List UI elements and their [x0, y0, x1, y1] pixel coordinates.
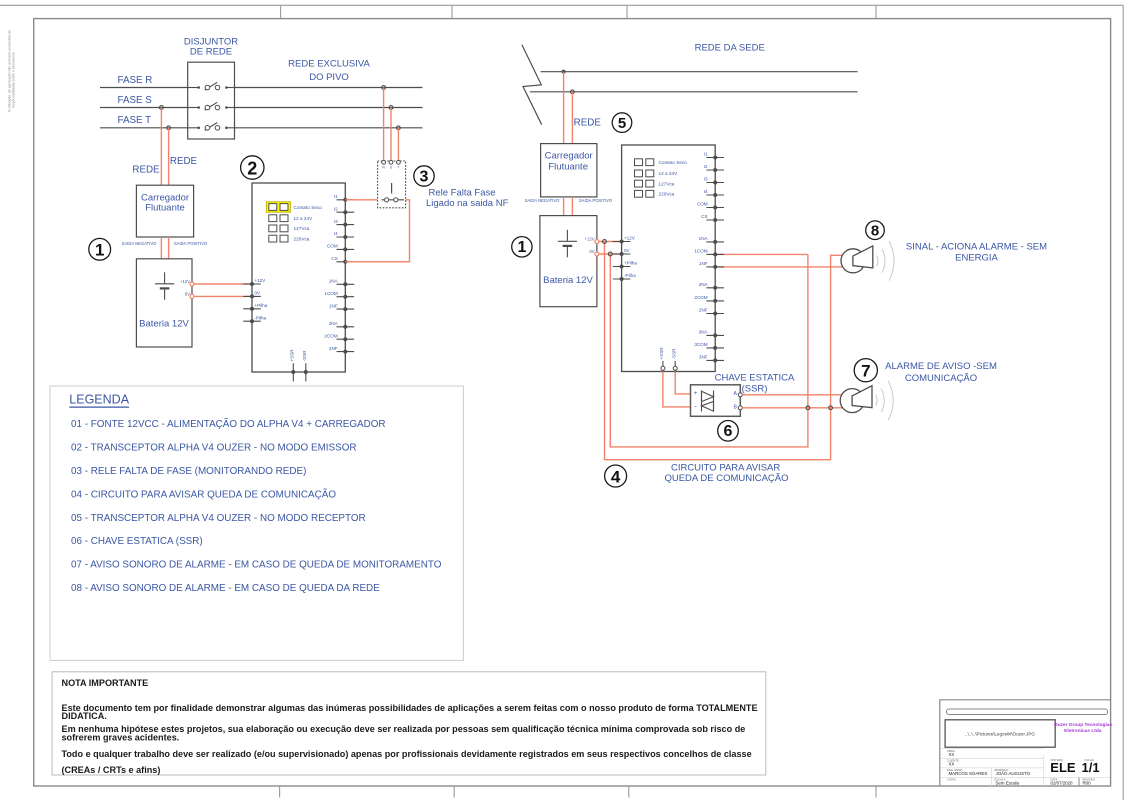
callout circle 8 — [866, 221, 885, 240]
top fold tick 1 — [280, 5, 282, 18]
svg-text:1/1: 1/1 — [1082, 760, 1100, 775]
top fold tick 4 — [875, 5, 877, 18]
svg-text:I1: I1 — [334, 194, 338, 199]
pin 2NA — [699, 282, 724, 290]
junction node 0V rail — [608, 252, 612, 256]
svg-text:6: 6 — [724, 423, 733, 440]
svg-text:07 - AVISO SONORO DE ALARME -: 07 - AVISO SONORO DE ALARME - EM CASO DE… — [71, 560, 442, 571]
svg-text:I2: I2 — [704, 164, 708, 169]
label CHAVE ESTATICA (SSR) — [715, 373, 795, 395]
title block slot bar — [947, 709, 1108, 715]
junction node rail 1 tap — [562, 70, 566, 74]
svg-text:SAIDA POSITIVO: SAIDA POSITIVO — [579, 198, 613, 203]
svg-text:SAIDA POSITIVO: SAIDA POSITIVO — [174, 241, 208, 246]
svg-text:5: 5 — [618, 115, 626, 132]
svg-text:A: A — [734, 391, 738, 397]
svg-text:I3: I3 — [334, 219, 338, 224]
wire rail2 drop to carregador (receiver) — [571, 92, 573, 144]
battery pin terminal 0V (emitter) — [190, 294, 194, 298]
pin I4 — [334, 231, 354, 239]
company name Ouzer Group — [1054, 722, 1113, 734]
svg-text:FASE T: FASE T — [118, 115, 152, 126]
pin 2COM — [324, 333, 354, 341]
svg-text:FASE S: FASE S — [118, 95, 153, 106]
wire FASE T — [100, 127, 423, 129]
svg-text:Bateria 12V: Bateria 12V — [543, 275, 593, 286]
svg-text:1NF: 1NF — [329, 303, 338, 308]
svg-text:3: 3 — [420, 168, 429, 185]
svg-text:XX: XX — [949, 762, 955, 767]
title block grid lines — [940, 749, 1110, 786]
svg-text:Flutuante: Flutuante — [548, 161, 588, 172]
svg-text:FASE R: FASE R — [118, 75, 153, 86]
pin +Pilha — [243, 303, 268, 311]
svg-text:+12V: +12V — [624, 236, 636, 241]
svg-text:CIRCUITO PARA AVISAR: CIRCUITO PARA AVISAR — [671, 463, 780, 474]
wire fase S drop to relay — [390, 108, 392, 162]
wire battery 0V to receiver box — [597, 253, 622, 255]
wire 1COM to vertical riser — [715, 253, 808, 255]
svg-text:02 - TRANSCEPTOR ALPHA V4 OUZE: 02 - TRANSCEPTOR ALPHA V4 OUZER - NO MOD… — [71, 443, 357, 454]
svg-text:+Pilha: +Pilha — [624, 261, 637, 266]
svg-text:Contato Seco: Contato Seco — [294, 205, 323, 210]
wire battery 0V to transceiver — [192, 295, 252, 297]
pin -Pilha — [243, 315, 266, 323]
svg-text:-Pilha: -Pilha — [254, 315, 266, 320]
svg-text:02/07/2020: 02/07/2020 — [1051, 781, 1074, 786]
svg-text:03 - RELE FALTA DE FASE (MONIT: 03 - RELE FALTA DE FASE (MONITORANDO RED… — [71, 466, 306, 477]
transceiver box U5 alpha V4 receiver — [622, 145, 716, 372]
transceiver box U2 alpha V4 emitter — [252, 183, 345, 372]
pin CS — [331, 256, 354, 264]
svg-text:responsabilidade sobre o docum: responsabilidade sobre o documento — [12, 52, 16, 108]
callout circle 4 — [605, 465, 627, 487]
wire rede da sede rail 2 — [530, 91, 858, 93]
svg-text:127Vca: 127Vca — [294, 226, 310, 231]
svg-text:QUEDA DE COMUNICAÇÃO: QUEDA DE COMUNICAÇÃO — [664, 473, 788, 484]
svg-text:SAIDA NEGATIVO: SAIDA NEGATIVO — [525, 198, 561, 203]
callout circle 2 — [241, 156, 264, 179]
svg-text:8: 8 — [871, 223, 879, 240]
pin +Pilha — [613, 261, 638, 269]
bottom fold tick 4 — [875, 786, 877, 798]
label ALARME DE AVISO -SEM COMUNICACAO — [885, 361, 997, 384]
page right edge line — [1122, 5, 1124, 800]
breaker switch pole 2 — [188, 102, 235, 110]
contact option 12 a 24V — [635, 170, 679, 177]
speaker sound arcs 8 - queda da rede — [877, 241, 895, 281]
label Rele Falta Fase Ligado na saida NF — [426, 188, 509, 210]
chave estatica SSR box U6 — [691, 385, 741, 417]
carregador flutuante box (receiver) — [541, 144, 597, 197]
svg-text:MARCOS SOARES: MARCOS SOARES — [949, 771, 988, 776]
svg-text:B: B — [734, 405, 738, 411]
wire +12V rail down to circuit 4 — [605, 242, 843, 460]
relay NF contact terminal left — [385, 198, 389, 202]
svg-text:Ouzer Group Tecnologias: Ouzer Group Tecnologias — [1054, 722, 1113, 728]
svg-text:2COM: 2COM — [324, 333, 337, 338]
wire 0V rail down to circuit 4 — [610, 254, 808, 447]
svg-text:NOTA IMPORTANTE: NOTA IMPORTANTE — [62, 678, 149, 688]
pin 1COM — [324, 291, 354, 299]
svg-text:(CREAs / CRTs e afins): (CREAs / CRTs e afins) — [62, 765, 161, 775]
svg-text:sofrerem graves acidentes.: sofrerem graves acidentes. — [62, 733, 180, 743]
pin I1 — [704, 152, 724, 160]
svg-text:2NF: 2NF — [329, 346, 338, 351]
pin 2COM — [694, 295, 724, 303]
svg-text:CS: CS — [701, 214, 707, 219]
svg-text:CHAVE ESTATICA: CHAVE ESTATICA — [715, 373, 795, 384]
battery pin terminal +12V (emitter) — [190, 282, 194, 286]
SSR triac symbol — [702, 391, 714, 412]
wire -SSR pin to chave estatica plus — [675, 372, 690, 394]
left margin disclaimer vertical text — [8, 30, 16, 112]
title block border — [940, 700, 1111, 786]
svg-text:220Vca: 220Vca — [659, 192, 675, 197]
svg-text:+Pilha: +Pilha — [254, 303, 267, 308]
pin 1NA — [329, 279, 354, 287]
svg-text:Todo e qualquer trabalho deve: Todo e qualquer trabalho deve ser realiz… — [62, 749, 752, 759]
pin 2NF — [699, 308, 724, 316]
svg-text:0V: 0V — [254, 291, 261, 296]
label SINAL - ACIONA ALARME - SEM ENERGIA — [906, 242, 1047, 264]
svg-text:ENERGIA: ENERGIA — [955, 253, 998, 264]
svg-text:1NF: 1NF — [699, 261, 708, 266]
pin I4 — [704, 189, 724, 197]
utility break symbol — [522, 45, 542, 125]
wire FASE S — [100, 107, 423, 109]
wire carregador to bateria positive — [168, 237, 170, 259]
svg-text:I2: I2 — [334, 206, 338, 211]
svg-text:XX: XX — [949, 752, 955, 757]
svg-text:+SSR: +SSR — [659, 347, 664, 360]
speaker sound arcs 7 - queda de monitoramento — [876, 381, 894, 421]
top fold tick 2 — [451, 5, 453, 18]
svg-text:I3: I3 — [704, 177, 708, 182]
label CIRCUITO PARA AVISAR QUEDA DE COMUNICACAO — [664, 463, 788, 485]
svg-text:CS: CS — [331, 256, 337, 261]
svg-text:I4: I4 — [334, 231, 338, 236]
pin 1COM — [694, 249, 724, 257]
wire carregador to bateria positive (receiver) — [571, 197, 573, 216]
label DISJUNTOR DE REDE — [184, 36, 238, 57]
svg-text:4: 4 — [611, 467, 621, 486]
wire carregador to bateria negative (receiver) — [563, 197, 565, 216]
battery symbol bateria right — [558, 230, 577, 257]
svg-text:REDE: REDE — [574, 117, 602, 128]
pin 1NF — [329, 303, 354, 311]
svg-text:COMUNICAÇÃO: COMUNICAÇÃO — [905, 373, 977, 384]
relay phase letters R S T — [382, 165, 399, 169]
svg-text:2NF: 2NF — [699, 308, 708, 313]
svg-text:SINAL - ACIONA ALARME - SEM: SINAL - ACIONA ALARME - SEM — [906, 242, 1047, 253]
contact option 127Vca — [269, 225, 310, 232]
rele falta fase box (dashed) — [378, 161, 406, 208]
callout circle 1 (right) — [512, 237, 532, 257]
svg-text:-Pilha: -Pilha — [624, 273, 636, 278]
contact option 12 a 24V — [269, 215, 313, 222]
svg-text:Eletronicas Ltda: Eletronicas Ltda — [1064, 728, 1102, 734]
svg-text:DO PIVO: DO PIVO — [309, 72, 349, 83]
svg-text:08 - AVISO SONORO DE ALARME -: 08 - AVISO SONORO DE ALARME - EM CASO DE… — [71, 583, 380, 594]
svg-text:0V: 0V — [589, 249, 594, 254]
legend box — [50, 386, 463, 660]
svg-text:LEGENDA: LEGENDA — [69, 393, 129, 407]
svg-text:Bateria 12V: Bateria 12V — [139, 318, 189, 329]
contact option 220Vca — [635, 190, 675, 197]
page top edge line — [0, 4, 1123, 6]
pin 3NA — [699, 330, 724, 338]
relay input terminal R — [382, 160, 386, 164]
title block field values — [949, 752, 1092, 786]
wire SSR A to speaker 7 — [742, 394, 842, 396]
svg-text:2: 2 — [247, 158, 257, 178]
relay input terminal T — [397, 160, 401, 164]
svg-text:-SSR: -SSR — [671, 348, 676, 360]
contact option Contato Seco — [269, 204, 322, 211]
svg-text:04 - CIRCUITO PARA AVISAR QUED: 04 - CIRCUITO PARA AVISAR QUEDA DE COMUN… — [71, 489, 336, 500]
svg-text:12 a 24V: 12 a 24V — [659, 171, 679, 176]
svg-text:1NA: 1NA — [329, 279, 339, 284]
svg-text:1NA: 1NA — [699, 236, 709, 241]
pin CS — [701, 214, 724, 222]
svg-text:Rele Falta Fase: Rele Falta Fase — [429, 188, 496, 199]
breaker switch pole 3 — [188, 123, 235, 131]
carregador flutuante box (emitter) — [136, 185, 193, 237]
pin I2 — [704, 164, 724, 172]
relay input terminal S — [389, 160, 393, 164]
callout circle 1 (left) — [89, 238, 111, 260]
junction node rail 2 tap — [571, 90, 575, 94]
pin +SSR bottom (emitter) — [290, 349, 296, 382]
junction node FASE S to relay — [389, 106, 393, 110]
svg-text:REDE DA SEDE: REDE DA SEDE — [695, 43, 765, 54]
label Carregador Flutuante (receiver) — [545, 151, 593, 173]
svg-text:01 - FONTE 12VCC - ALIMENTAÇÃO: 01 - FONTE 12VCC - ALIMENTAÇÃO DO ALPHA … — [71, 419, 386, 430]
pin I2 — [334, 206, 354, 214]
svg-text:ELE: ELE — [1050, 760, 1076, 775]
pin 1NA — [699, 236, 724, 244]
svg-text:REDE: REDE — [170, 156, 198, 167]
pin +12V — [613, 236, 636, 244]
svg-text:-SSR: -SSR — [302, 350, 307, 362]
wire 1NF to speaker 8 — [715, 266, 842, 268]
wire +SSR pin to chave estatica minus — [663, 372, 691, 407]
wire battery +12V to receiver box — [597, 241, 622, 243]
speaker 8 - queda da rede — [841, 246, 873, 273]
battery pin terminal +12V (receiver) — [595, 240, 599, 244]
junction node FASE T tap — [167, 126, 171, 130]
pin -SSR bottom (emitter) — [302, 350, 308, 382]
svg-text:1: 1 — [95, 241, 104, 260]
pin 0V — [613, 248, 631, 256]
svg-text:2NA: 2NA — [699, 282, 709, 287]
svg-text:1: 1 — [517, 239, 526, 256]
bottom fold tick 1 — [279, 786, 281, 798]
svg-text:06 - CHAVE ESTATICA (SSR): 06 - CHAVE ESTATICA (SSR) — [71, 536, 203, 547]
wire I1 to relay NF contact and back to CS — [345, 200, 409, 262]
svg-text:1COM: 1COM — [324, 291, 337, 296]
callout circle 7 — [854, 359, 877, 382]
svg-text:+12V: +12V — [254, 278, 266, 283]
top fold tick 3 — [626, 5, 628, 18]
svg-text:+12V: +12V — [180, 279, 190, 284]
wire SSR B to speaker 7 — [742, 407, 842, 409]
svg-text:ALARME DE AVISO -SEM: ALARME DE AVISO -SEM — [885, 361, 997, 372]
contact option 220Vca — [269, 235, 310, 242]
wire fase T drop to relay — [397, 128, 399, 161]
bottom fold tick 2 — [453, 786, 455, 798]
pin COM — [327, 244, 354, 252]
contato seco yellow highlight — [266, 202, 290, 212]
svg-text:..\..\..\Pictures\LegosW\Ouzer: ..\..\..\Pictures\LegosW\Ouzer.JPG — [965, 731, 1035, 736]
callout circle 6 — [718, 421, 739, 442]
pin +SSR bottom (receiver) — [659, 347, 665, 372]
pin I1 — [334, 194, 354, 202]
pin 2NA — [329, 321, 354, 329]
battery pin terminal 0V (receiver) — [595, 252, 599, 256]
pin -SSR bottom (receiver) — [671, 348, 677, 372]
svg-text:(SSR): (SSR) — [742, 384, 768, 395]
wire fase R drop to relay — [383, 88, 385, 162]
wire carregador to bateria negative — [160, 237, 162, 259]
pin COM — [697, 202, 724, 210]
svg-text:DE REDE: DE REDE — [190, 46, 232, 57]
svg-text:JOÃO AUGUSTO: JOÃO AUGUSTO — [996, 771, 1031, 776]
svg-text:I1: I1 — [704, 152, 708, 157]
wire REDE drop S to carregador — [160, 108, 162, 186]
wire REDE drop T to carregador — [168, 128, 170, 185]
pin I3 — [334, 219, 354, 227]
svg-text:7: 7 — [861, 362, 870, 381]
SSR output terminal B — [738, 406, 742, 410]
svg-text:1COM: 1COM — [694, 249, 707, 254]
speaker 7 - queda de monitoramento — [840, 386, 872, 413]
pin 3COM — [694, 342, 724, 350]
label REDE EXCLUSIVA DO PIVO — [288, 59, 370, 84]
svg-text:+12V: +12V — [585, 237, 595, 242]
callout circle 5 — [612, 113, 632, 133]
contact option 127Vca — [635, 180, 675, 187]
junction node B line riser 1 — [806, 406, 810, 410]
svg-text:COPIA: COPIA — [947, 778, 956, 782]
svg-text:Este documento tem por finalid: Este documento tem por finalidade demons… — [62, 703, 758, 713]
svg-text:220Vca: 220Vca — [294, 236, 310, 241]
relay NF contact terminal right — [394, 198, 398, 202]
pin 1NF — [699, 261, 724, 269]
bateria 12V box (emitter) — [136, 259, 192, 347]
svg-text:I4: I4 — [704, 189, 708, 194]
svg-text:R00: R00 — [1083, 781, 1092, 786]
svg-text:3COM: 3COM — [694, 342, 707, 347]
svg-text:3NF: 3NF — [699, 355, 708, 360]
svg-text:05 - TRANSCEPTOR ALPHA V4 OUZE: 05 - TRANSCEPTOR ALPHA V4 OUZER - NO MOD… — [71, 513, 366, 524]
svg-text:0V: 0V — [185, 292, 190, 297]
svg-text:+SSR: +SSR — [290, 349, 295, 362]
svg-text:Ligado na saida NF: Ligado na saida NF — [426, 198, 509, 209]
svg-text:SAIDA NEGATIVO: SAIDA NEGATIVO — [122, 241, 158, 246]
pin +12V — [243, 278, 266, 286]
svg-text:COM: COM — [697, 202, 708, 207]
wire FASE R — [100, 87, 423, 89]
svg-text:12 a 24V: 12 a 24V — [294, 216, 314, 221]
svg-text:2NA: 2NA — [329, 321, 339, 326]
svg-text:DIDATICA.: DIDATICA. — [62, 711, 107, 721]
breaker switch pole 1 — [188, 82, 235, 90]
junction node FASE R to relay — [382, 86, 386, 90]
junction node +12V rail — [603, 240, 607, 244]
SSR output terminal A — [738, 393, 742, 397]
svg-text:Carregador: Carregador — [545, 151, 593, 162]
svg-text:Contato Seco: Contato Seco — [659, 160, 688, 165]
pin 3NF — [699, 355, 724, 363]
svg-text:3NA: 3NA — [699, 330, 709, 335]
junction node FASE S tap — [160, 106, 164, 110]
wire battery +12V to transceiver — [192, 283, 252, 285]
callout circle 3 — [414, 166, 434, 186]
relay actuator line — [391, 183, 393, 194]
relay NF contact bar — [382, 199, 405, 201]
pin -Pilha — [613, 273, 636, 281]
svg-text:T: T — [397, 165, 399, 169]
disjuntor de rede box — [188, 62, 235, 139]
label Carregador Flutuante — [141, 192, 189, 213]
svg-text:REDE EXCLUSIVA: REDE EXCLUSIVA — [288, 59, 370, 70]
title block divider data/rev — [1078, 778, 1080, 786]
nota importante box — [52, 672, 766, 775]
pin 2NF — [329, 346, 354, 354]
svg-text:Flutuante: Flutuante — [145, 202, 185, 213]
wire rede da sede rail 1 — [541, 71, 858, 73]
battery symbol bateria left — [155, 272, 174, 300]
svg-text:127Vca: 127Vca — [659, 181, 675, 186]
junction node FASE T to relay — [397, 126, 401, 130]
svg-text:+: + — [694, 391, 698, 397]
svg-text:COM: COM — [327, 244, 338, 249]
svg-text:REDE: REDE — [132, 165, 160, 176]
svg-text:2COM: 2COM — [694, 295, 707, 300]
bottom fold tick 3 — [628, 786, 630, 798]
wire rail1 drop to carregador (receiver) — [563, 72, 565, 144]
svg-text:0V: 0V — [624, 248, 631, 253]
svg-text:Sem Escala: Sem Escala — [996, 781, 1020, 786]
bateria 12V box (receiver) — [540, 216, 597, 307]
title block logo path box — [945, 720, 1055, 747]
pin 0V — [243, 291, 261, 299]
contact option Contato Seco — [635, 159, 688, 166]
junction node B line riser 2 — [829, 406, 833, 410]
pin I3 — [704, 177, 724, 185]
title block field labels — [947, 749, 1096, 782]
